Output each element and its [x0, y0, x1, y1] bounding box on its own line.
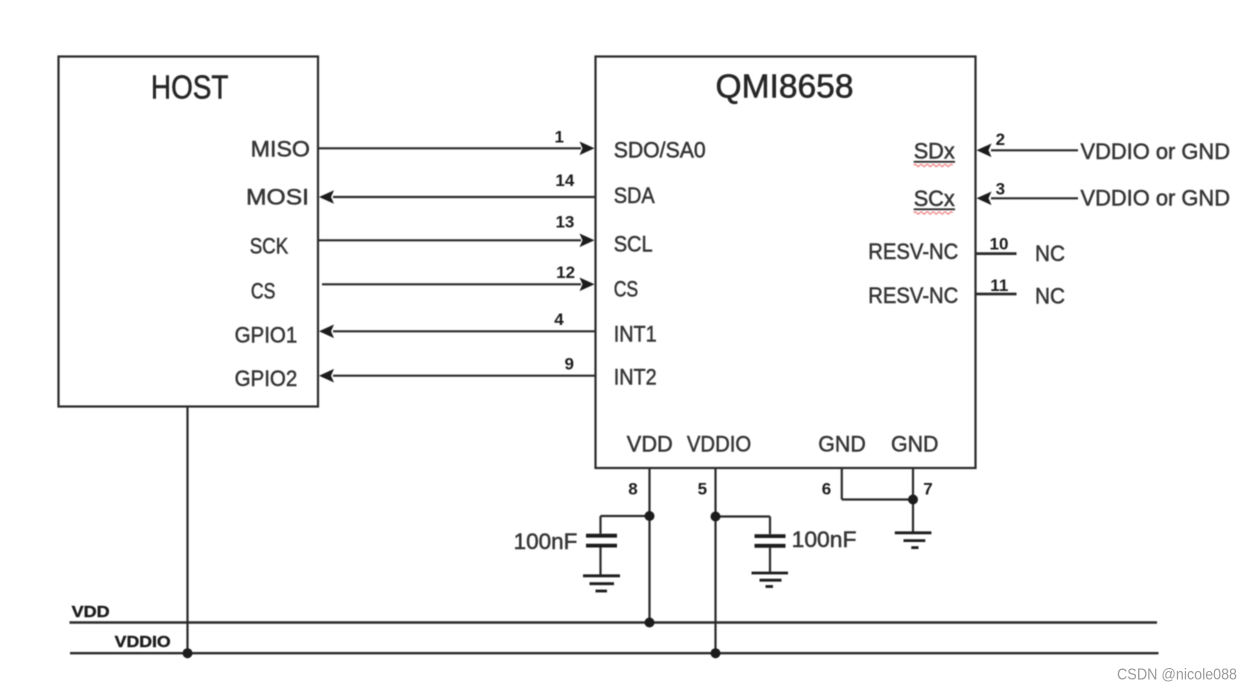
svg-text:RESV-NC: RESV-NC — [868, 239, 958, 264]
svg-text:SCL: SCL — [614, 232, 653, 257]
svg-text:MOSI: MOSI — [246, 185, 309, 210]
svg-text:4: 4 — [554, 310, 564, 329]
svg-text:GPIO1: GPIO1 — [235, 323, 298, 348]
svg-text:MISO: MISO — [251, 137, 310, 162]
svg-text:SDx: SDx — [914, 139, 955, 164]
svg-text:VDDIO or GND: VDDIO or GND — [1081, 186, 1231, 211]
svg-text:GND: GND — [891, 432, 939, 457]
svg-text:CS: CS — [251, 279, 276, 304]
svg-text:1: 1 — [555, 128, 564, 147]
svg-text:SDA: SDA — [614, 183, 655, 208]
svg-text:5: 5 — [698, 480, 707, 499]
svg-text:VDDIO: VDDIO — [115, 634, 171, 651]
svg-text:QMI8658: QMI8658 — [716, 67, 854, 104]
svg-text:2: 2 — [996, 130, 1005, 149]
svg-text:CSDN @nicole088: CSDN @nicole088 — [1117, 667, 1237, 684]
svg-text:SDO/SA0: SDO/SA0 — [614, 138, 706, 163]
svg-text:VDD: VDD — [627, 432, 673, 457]
svg-text:SCx: SCx — [914, 186, 955, 211]
svg-text:100nF: 100nF — [792, 527, 857, 552]
svg-text:13: 13 — [555, 213, 574, 232]
svg-text:INT1: INT1 — [614, 322, 657, 347]
svg-text:GPIO2: GPIO2 — [235, 366, 298, 391]
svg-text:RESV-NC: RESV-NC — [868, 283, 958, 308]
svg-text:100nF: 100nF — [514, 529, 578, 554]
svg-text:14: 14 — [555, 171, 574, 190]
svg-text:SCK: SCK — [250, 234, 289, 259]
svg-text:12: 12 — [556, 263, 575, 282]
svg-text:GND: GND — [818, 432, 866, 457]
svg-text:7: 7 — [923, 480, 932, 499]
svg-text:HOST: HOST — [151, 68, 229, 105]
svg-text:NC: NC — [1035, 284, 1065, 309]
svg-text:11: 11 — [990, 276, 1008, 295]
svg-text:VDD: VDD — [72, 604, 110, 621]
svg-text:VDDIO: VDDIO — [687, 432, 751, 457]
svg-text:INT2: INT2 — [614, 365, 657, 390]
svg-text:9: 9 — [565, 355, 574, 374]
svg-text:8: 8 — [628, 480, 637, 499]
svg-text:VDDIO or GND: VDDIO or GND — [1081, 139, 1231, 164]
svg-text:NC: NC — [1035, 241, 1065, 266]
svg-text:3: 3 — [996, 180, 1005, 199]
svg-text:6: 6 — [822, 480, 831, 499]
svg-text:10: 10 — [990, 234, 1009, 253]
svg-text:CS: CS — [614, 277, 639, 302]
